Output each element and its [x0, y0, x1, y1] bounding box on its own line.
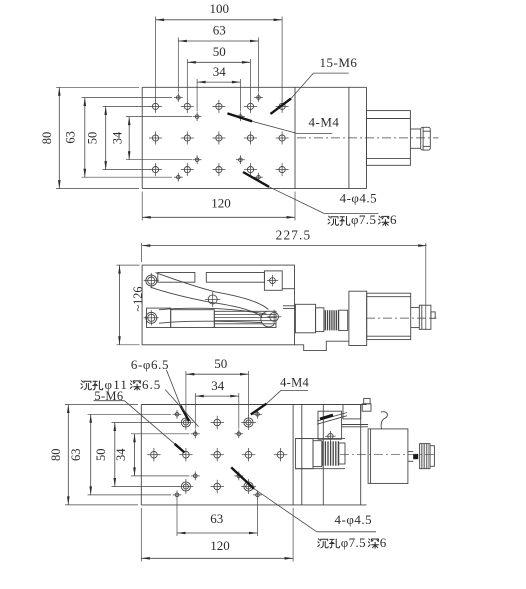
- bottom view label counterbore phi11 depth 6.5: [81, 377, 199, 427]
- svg-text:~126: ~126: [131, 287, 145, 312]
- top view label 15-M6: [271, 55, 358, 114]
- bottom view left dim 34 extension lines: [131, 434, 190, 476]
- bottom view dim 120: [141, 538, 293, 560]
- middle view: lower left block and pocket: [147, 308, 215, 327]
- svg-text:6.5: 6.5: [142, 377, 161, 392]
- bottom view label 5-M6: [94, 389, 185, 453]
- svg-text:120: 120: [210, 538, 230, 553]
- top view dim 63: [178, 23, 258, 43]
- top view dim 100: [156, 1, 283, 21]
- svg-text:φ7.5: φ7.5: [341, 535, 366, 550]
- bottom view: spindle and set screw: [408, 452, 418, 462]
- middle view: base bottom step: [295, 341, 349, 350]
- top view: centerline: [297, 137, 439, 139]
- middle view: centerline: [366, 317, 437, 319]
- bottom view label 6-phi6.5: [131, 357, 189, 421]
- middle view: upper left cam: [144, 273, 159, 288]
- svg-text:50: 50: [213, 44, 226, 59]
- top view left dim 63 extension lines: [82, 98, 173, 178]
- bottom view: spring right seat: [339, 443, 345, 464]
- svg-text:34: 34: [114, 448, 128, 461]
- svg-text:φ7.5: φ7.5: [351, 212, 376, 227]
- top view: micrometer spindle: [410, 129, 420, 148]
- top view left dim 80 extension lines: [56, 87, 139, 188]
- bottom view dim 63 extension lines: [177, 499, 258, 536]
- top view dim 50: [187, 44, 250, 64]
- svg-text:4-φ4.5: 4-φ4.5: [340, 191, 378, 206]
- middle view dim 227.5: [142, 228, 427, 247]
- bottom view left dim 63: [69, 414, 92, 495]
- middle view: top plate pockets: [158, 273, 265, 283]
- bottom view top dim 50 extension lines: [186, 371, 249, 416]
- bottom view: clamp bracket with cam lever: [317, 411, 347, 441]
- bottom view left dim 80: [49, 405, 70, 505]
- middle view: lever end pivot: [261, 310, 281, 327]
- bottom view label counterbore phi7.5 depth 6: [318, 535, 387, 550]
- bottom view label 4-M4: [251, 376, 310, 415]
- top view dim 100 extension lines: [156, 17, 283, 102]
- svg-text:6-φ6.5: 6-φ6.5: [131, 357, 169, 372]
- top view left dim 50 extension lines: [103, 106, 151, 169]
- bottom view: centerline: [340, 454, 437, 456]
- top view: micrometer knob: [421, 127, 431, 150]
- top view label 4-M4: [227, 113, 339, 133]
- bottom view top dim 34 extension lines: [195, 393, 239, 429]
- middle view: lever arm upper: [151, 273, 269, 317]
- svg-text:15-M6: 15-M6: [320, 55, 358, 70]
- bottom view left dim 50 extension lines: [112, 423, 180, 487]
- middle view dim 227.5 extension lines: [142, 243, 426, 330]
- bottom view: right side section lines: [302, 405, 361, 505]
- middle view: spring coils: [325, 310, 338, 330]
- bottom view: top screw: [362, 399, 371, 412]
- top view left dim 80: [40, 87, 61, 188]
- bottom view: base plate outline: [141, 405, 366, 505]
- svg-text:34: 34: [213, 64, 227, 79]
- middle view: push block: [295, 304, 315, 333]
- top view label 4-phi4.5: [243, 172, 378, 214]
- bottom view left dim 50: [94, 423, 116, 487]
- middle view left dim ~126 extension lines: [117, 265, 140, 345]
- svg-text:4-M4: 4-M4: [280, 376, 309, 390]
- bottom view: bracket cap block: [343, 405, 361, 419]
- top view: 4 M4 holes: [174, 93, 263, 182]
- bottom view top dim 50: [186, 356, 249, 375]
- middle view: right end block with hole: [264, 271, 294, 290]
- middle view left dim ~126: [118, 265, 145, 345]
- bottom view label 4-phi4.5: [231, 467, 376, 531]
- svg-text:50: 50: [94, 448, 108, 461]
- top view dim 50 extension lines: [187, 59, 250, 100]
- top view dim 63 extension lines: [178, 38, 258, 93]
- middle view: micrometer knob: [419, 305, 435, 329]
- svg-text:63: 63: [213, 23, 226, 38]
- top view dim 34 extension lines: [197, 79, 240, 112]
- bottom view: spring coils: [323, 441, 339, 465]
- svg-text:6: 6: [390, 212, 397, 227]
- middle view: crossed roller rail stack: [214, 311, 276, 327]
- bottom view: 5 M6 holes and center holes: [147, 416, 287, 493]
- svg-text:120: 120: [211, 196, 231, 211]
- svg-text:63: 63: [210, 511, 223, 526]
- svg-text:6: 6: [380, 535, 387, 550]
- top view dim 34: [197, 64, 240, 84]
- bottom view top dim 34: [195, 378, 239, 398]
- svg-text:34: 34: [110, 131, 124, 144]
- middle view: main body outline: [142, 265, 294, 345]
- top view left dim 50: [85, 106, 107, 169]
- bottom view: motor body: [368, 429, 408, 484]
- middle view: spring left seat: [316, 308, 324, 332]
- top view: base block right extension: [349, 87, 367, 188]
- top view: micrometer clamp bracket: [367, 111, 411, 166]
- bottom view left dim 34: [114, 434, 136, 476]
- top view: 4 phi4.5 counterbore holes: [193, 112, 245, 164]
- middle view: push rod: [283, 306, 295, 309]
- middle view: lever arm lower: [159, 308, 267, 323]
- top view left dim 63: [64, 98, 87, 178]
- bottom view: 4 phi4.5 counterbore holes: [191, 429, 243, 480]
- svg-text:80: 80: [49, 448, 63, 461]
- bottom view left dim 80 extension lines: [65, 405, 138, 505]
- bottom view: 4 M4 holes: [173, 410, 262, 499]
- middle view: micrometer spindle: [411, 307, 420, 327]
- bottom view: phi6.5 counterbore phi11 holes: [179, 415, 256, 494]
- bottom view dim 120 extension lines: [141, 508, 293, 562]
- svg-text:4-M4: 4-M4: [309, 114, 340, 129]
- bottom view dim 63: [177, 511, 258, 534]
- svg-text:4-φ4.5: 4-φ4.5: [335, 512, 373, 527]
- svg-text:63: 63: [64, 131, 78, 144]
- bottom view: cable: [381, 412, 387, 429]
- svg-text:100: 100: [209, 1, 229, 16]
- top view dim 120: [142, 196, 295, 219]
- svg-text:50: 50: [214, 356, 227, 371]
- top view label counterbore phi7.5 depth6: [328, 212, 397, 227]
- top view left dim 34: [110, 117, 130, 160]
- middle view: micrometer body: [367, 293, 411, 339]
- bottom view left dim 63 extension lines: [88, 414, 172, 495]
- middle view: spring right seat: [339, 310, 348, 330]
- bottom view: spring pocket: [295, 439, 345, 469]
- svg-text:80: 80: [40, 132, 54, 145]
- top view: 15 M6 hole grid: [149, 100, 289, 176]
- middle view: lever pivot: [205, 292, 220, 307]
- middle view: micrometer bracket: [349, 291, 367, 345]
- svg-text:34: 34: [211, 378, 225, 393]
- svg-text:63: 63: [69, 448, 83, 461]
- middle view: lower left cam: [144, 310, 159, 325]
- bottom view: push rod pair: [342, 425, 369, 427]
- svg-text:50: 50: [85, 132, 99, 145]
- bottom view: knob with knurling: [420, 444, 435, 469]
- top view: moving plate outline 120x80: [142, 87, 366, 188]
- top view dim 120 extension lines: [142, 192, 295, 221]
- svg-text:227.5: 227.5: [276, 228, 312, 243]
- top view left dim 34 extension lines: [126, 117, 192, 160]
